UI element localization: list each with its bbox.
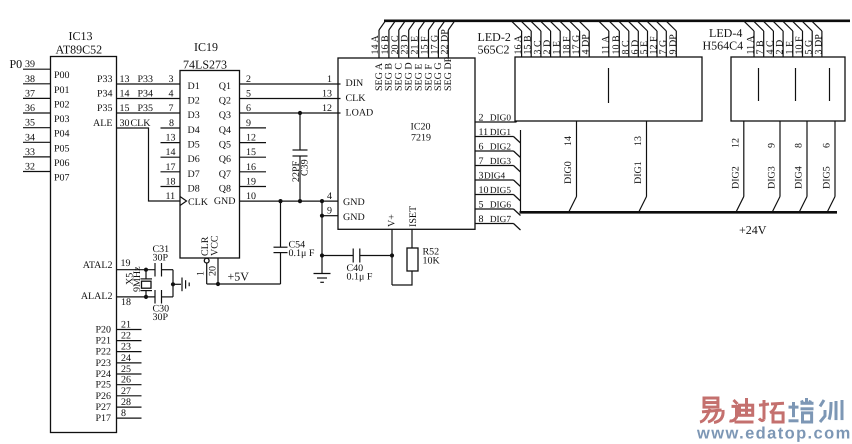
svg-text:P26: P26 <box>95 391 111 402</box>
pin label GND of IC19 <box>214 196 236 207</box>
pin label DIG5 rotated <box>822 166 833 189</box>
wire IC20 segment pin 16 B to bus <box>389 21 395 58</box>
svg-text:CLK: CLK <box>188 197 209 208</box>
svg-text:P20: P20 <box>95 325 111 336</box>
wire LED-4 DIG4 lead pin 8 <box>800 121 808 212</box>
node junction dot XTAL2 <box>144 295 148 299</box>
svg-text:P25: P25 <box>95 380 111 391</box>
svg-text:37: 37 <box>25 88 35 99</box>
pin number 12 rotated <box>730 138 741 148</box>
svg-text:P34: P34 <box>138 89 154 100</box>
svg-text:16: 16 <box>246 162 256 173</box>
wire net CLK from ALE pin30 down to IC19 CLK pin11 <box>117 118 181 201</box>
wire LED-2 pin 1 E from bus <box>550 21 560 57</box>
pin stub Q8 pin 19 <box>240 177 267 188</box>
wire V+ lead down <box>391 229 393 285</box>
pin label DIG4 rotated <box>794 166 805 189</box>
svg-text:12: 12 <box>322 103 332 114</box>
pin label P04 <box>54 129 70 140</box>
pin label P17 <box>95 413 111 424</box>
inverter bubble on CLR pin 1 <box>204 258 209 263</box>
pin label SEG F rotated <box>423 64 434 91</box>
wire C54 top to GND row <box>280 201 282 247</box>
wire LED-4 DIG3 lead pin 9 <box>773 121 781 212</box>
pin label CLK of IC19 <box>188 197 209 208</box>
wire LED-2 pin 3 C from bus <box>531 21 541 57</box>
node junction dot Q3/C39 <box>298 111 302 115</box>
label 7219 <box>411 133 431 144</box>
wire LED-2 pin 7 G from bus <box>656 21 666 57</box>
svg-text:P35: P35 <box>138 103 154 114</box>
pin stub IC19 D4 pin 8 <box>161 118 181 129</box>
wire LED-2 pin 6 D from bus <box>628 21 638 57</box>
svg-text:DIG1: DIG1 <box>490 128 512 138</box>
pin number label 7 B rotated <box>755 40 766 55</box>
wire IC13 pin 24 P23 <box>117 353 142 364</box>
pin label P35 inside IC13 <box>97 103 113 114</box>
label AT89C52 <box>56 43 103 57</box>
pin label P03 <box>54 114 70 125</box>
svg-text:35: 35 <box>25 118 35 129</box>
svg-text:25: 25 <box>121 364 131 375</box>
svg-text:P17: P17 <box>95 413 111 424</box>
svg-text:10K: 10K <box>423 256 441 267</box>
svg-text:3 DP: 3 DP <box>813 34 824 55</box>
resistor R52 10K <box>407 247 441 272</box>
svg-text:P33: P33 <box>97 74 113 85</box>
svg-text:P03: P03 <box>54 114 70 125</box>
wire LED-2 pin 9 DP from bus <box>666 21 676 57</box>
clock triangle on IC19 CLK pin <box>180 197 187 206</box>
svg-text:24: 24 <box>121 353 131 364</box>
pin label P21 <box>95 336 111 347</box>
wire DIG2 pin 6 to DIG bus <box>475 151 521 158</box>
svg-text:14: 14 <box>120 89 130 100</box>
label IC13 <box>69 29 93 43</box>
svg-text:GND: GND <box>343 212 365 223</box>
pin number 2 and label DIG0 <box>479 113 512 124</box>
wire LED-2 pin 10 B from bus <box>609 21 619 57</box>
svg-text:P07: P07 <box>54 173 70 184</box>
op-amp IC20 7219 display driver box <box>338 58 475 229</box>
svg-text:9: 9 <box>246 118 251 129</box>
wire IC20 segment pin 20 C to bus <box>399 21 405 58</box>
pin label Q8 <box>219 184 231 195</box>
svg-text:P23: P23 <box>95 358 111 369</box>
svg-text:19: 19 <box>246 177 256 188</box>
pin number label 1 E rotated <box>552 41 563 55</box>
svg-text:32: 32 <box>25 162 35 173</box>
svg-text:4 DP: 4 DP <box>581 34 592 55</box>
svg-text:Q1: Q1 <box>219 81 231 92</box>
pin stub Q6 pin 15 <box>240 147 267 158</box>
wire DIG1 pin 11 to DIG bus <box>475 137 521 144</box>
wire IC13 pin 33 P06 <box>23 147 51 158</box>
pin label P26 <box>95 391 111 402</box>
wire +5V riser to C54 <box>280 253 282 284</box>
wire IC13 pin 36 P03 <box>23 103 51 114</box>
wire ground riser vertical <box>172 270 174 297</box>
wire IC13 pin 25 P24 <box>117 364 142 375</box>
svg-text:D7: D7 <box>188 169 200 180</box>
svg-text:10: 10 <box>246 191 256 202</box>
pin number 11 and label DIG1 <box>479 127 512 138</box>
svg-text:20: 20 <box>208 266 219 276</box>
wire R52 bottom to V+ <box>392 271 412 285</box>
svg-text:+5V: +5V <box>228 270 250 284</box>
wire IC13 pin 28 P27 <box>117 397 142 408</box>
op-amp IC19 74LS273 latch box <box>180 71 240 259</box>
node junction dot C39 bottom <box>298 199 302 203</box>
svg-text:P02: P02 <box>54 99 70 110</box>
pin number 10 and label DIG5 <box>479 185 512 196</box>
pin label SEG G rotated <box>433 62 444 91</box>
wire IC13 pin 39 P00 <box>23 59 51 70</box>
pin number label 5 G rotated <box>804 40 815 55</box>
wire LED-2 pin 12 F from bus <box>647 21 657 57</box>
svg-text:AT89C52: AT89C52 <box>56 43 103 57</box>
pin label CLK of IC20 <box>346 93 367 104</box>
wire LED-4 pin 7 B from bus <box>754 21 764 57</box>
svg-text:DIG5: DIG5 <box>490 186 512 196</box>
svg-text:23: 23 <box>121 342 131 353</box>
svg-text:LOAD: LOAD <box>346 108 374 119</box>
wire LED-2 DIG1 lead pin 13 <box>639 121 647 212</box>
pin number 20 rotated <box>208 266 219 276</box>
svg-text:30P: 30P <box>153 253 169 264</box>
wire IC13 pin 27 P26 <box>117 386 142 397</box>
svg-text:11: 11 <box>479 127 489 138</box>
capacitor C54 0.1uF <box>274 240 315 260</box>
svg-text:D3: D3 <box>188 110 200 121</box>
capacitor C30 30P <box>153 290 170 323</box>
wire +5V rail <box>207 283 281 285</box>
wire LED-2 pin 2 D from bus <box>541 21 551 57</box>
svg-text:13: 13 <box>322 89 332 100</box>
svg-text:9: 9 <box>327 206 332 217</box>
pin label P25 <box>95 380 111 391</box>
svg-text:14: 14 <box>166 147 176 158</box>
pin label DIG1 rotated <box>633 161 644 184</box>
svg-text:28: 28 <box>121 397 131 408</box>
wire LED-4 pin 11 A from bus <box>744 21 754 57</box>
svg-text:Q8: Q8 <box>219 184 231 195</box>
label X5 <box>125 273 136 285</box>
pin label CLR rotated <box>200 236 211 256</box>
svg-text:34: 34 <box>25 132 35 143</box>
svg-text:P27: P27 <box>95 402 111 413</box>
label IC19 <box>194 40 218 54</box>
label 74LS273 <box>183 58 227 72</box>
svg-text:DIG2: DIG2 <box>490 143 512 153</box>
svg-text:P04: P04 <box>54 129 70 140</box>
wire to crystal ground <box>173 283 181 285</box>
wire DIG4 pin 3 to DIG bus <box>475 180 521 187</box>
value label 9MHz <box>132 266 143 292</box>
node junction dot XTAL1 <box>144 268 148 272</box>
svg-text:IC20: IC20 <box>411 122 431 133</box>
svg-text:27: 27 <box>121 386 131 397</box>
svg-text:30P: 30P <box>153 312 169 323</box>
wire LED-4 pin 3 DP from bus <box>812 21 822 57</box>
pin label SEG D rotated <box>404 62 415 91</box>
pin label D7 <box>188 169 200 180</box>
capacitor C31 30P <box>153 244 170 277</box>
ground symbol sideways near crystal <box>182 278 189 292</box>
pin label D4 <box>188 125 200 136</box>
pin number 11 for IC19 CLK <box>166 191 176 202</box>
svg-text:P21: P21 <box>95 336 111 347</box>
wire DIG5 pin 10 to DIG bus <box>475 195 521 202</box>
pin number label 2 D rotated <box>775 40 786 55</box>
wire LED-2 pin 17 G from bus <box>570 21 580 57</box>
svg-text:Q6: Q6 <box>219 154 231 165</box>
pin label Q1 <box>219 81 231 92</box>
svg-text:C39: C39 <box>300 159 311 176</box>
label IC20 <box>411 122 431 133</box>
wire IC13 pin 37 P02 <box>23 88 51 99</box>
wire IC13 pin 21 P20 <box>117 320 142 331</box>
pin label DIN <box>346 78 364 89</box>
svg-text:6: 6 <box>246 103 251 114</box>
pin number label 22 DP rotated <box>439 29 450 55</box>
svg-text:DIG0: DIG0 <box>563 161 574 184</box>
pin number label 4 DP rotated <box>581 34 592 55</box>
wire DIG0 pin2 to LED-2 <box>475 121 517 122</box>
pin number label 20 C rotated <box>390 35 401 55</box>
pin number label 17 G rotated <box>429 35 440 55</box>
pin number label 16 B rotated <box>380 35 391 55</box>
svg-text:10: 10 <box>479 185 489 196</box>
pin number 6 rotated <box>822 143 833 148</box>
wire LED-4 pin 4 C from bus <box>763 21 773 57</box>
svg-text:6: 6 <box>822 143 833 148</box>
svg-text:3: 3 <box>479 171 484 182</box>
digit dividers inside LED-4 <box>759 68 830 101</box>
svg-text:5: 5 <box>479 200 484 211</box>
pin stub IC19 D8 pin 18 <box>161 177 181 188</box>
pin label P02 <box>54 99 70 110</box>
pin label SEG C rotated <box>394 63 405 91</box>
pin number label 3 DP rotated <box>813 34 824 55</box>
pin stub Q5 pin 12 <box>240 133 267 144</box>
pin label ALAL2 inside IC13 <box>81 291 113 302</box>
svg-text:18: 18 <box>121 297 131 308</box>
pin number 7 and label DIG3 <box>479 156 512 167</box>
pin number 3 and label DIG4 <box>479 171 506 182</box>
label 565C2 <box>478 43 510 57</box>
wire IC20 segment pin 22 DP to bus <box>448 21 454 58</box>
svg-text:P00: P00 <box>54 70 70 81</box>
pin number label 12 F rotated <box>649 36 660 55</box>
pin number label 6 D rotated <box>630 40 641 55</box>
pin number 14 rotated <box>563 136 574 146</box>
svg-text:IC13: IC13 <box>69 29 93 43</box>
wire IC13 pin 26 P25 <box>117 375 142 386</box>
node +5V label <box>228 270 250 284</box>
pin number label 1 E rotated <box>784 41 795 55</box>
capacitor C39 22PF from LOAD to GND <box>293 113 308 201</box>
pin number 8 rotated <box>794 143 805 148</box>
svg-text:SEG DP: SEG DP <box>443 56 454 91</box>
wire XTAL2 pin 18 row <box>117 297 156 308</box>
svg-text:0.1μ F: 0.1μ F <box>347 272 373 283</box>
pin number label 15 B rotated <box>523 35 534 55</box>
pin label Q6 <box>219 154 231 165</box>
wire LED-2 pin 16 A from bus <box>512 21 522 57</box>
wire GND pin10 to IC20 GND pin4 <box>240 191 339 202</box>
pin label D1 <box>188 81 200 92</box>
pin label P27 <box>95 402 111 413</box>
pin label LOAD <box>346 108 374 119</box>
pin label D6 <box>188 154 200 165</box>
node junction dot on riser <box>171 282 175 286</box>
node +24V label <box>739 223 767 237</box>
digit divider inside LED-2 <box>608 68 610 103</box>
svg-text:DIG1: DIG1 <box>633 161 644 184</box>
svg-text:GND: GND <box>343 197 365 208</box>
svg-text:ISET: ISET <box>408 206 419 227</box>
wire DIG7 pin 8 to DIG bus <box>475 224 521 231</box>
pin number label 11 A rotated <box>746 35 757 55</box>
pin number label 5 E rotated <box>639 41 650 55</box>
svg-text:P05: P05 <box>54 143 70 154</box>
LED display LED-2 565C2 box <box>515 57 702 121</box>
svg-text:D6: D6 <box>188 154 200 165</box>
ground symbol below IC20 <box>314 274 331 283</box>
wire Q3 pin6 to IC20 LOAD pin12 <box>240 103 341 114</box>
svg-text:Q3: Q3 <box>219 110 231 121</box>
wire LED-2 pin 8 C from bus <box>619 21 629 57</box>
node junction dot VCC/+5V <box>216 282 220 286</box>
wire IC13 pin 23 P22 <box>117 342 142 353</box>
svg-text:P01: P01 <box>54 85 70 96</box>
pin label P20 <box>95 325 111 336</box>
pin label DIG3 rotated <box>767 166 778 189</box>
wire LED-4 pin 5 G from bus <box>802 21 812 57</box>
wire IC13 pin 35 P04 <box>23 118 51 129</box>
node junction dot GND pin9 tee <box>320 214 324 218</box>
wire XTAL1 pin 19 row <box>117 258 156 270</box>
pin number label 7 G rotated <box>658 40 669 55</box>
wire IC13 pin 32 P07 <box>23 162 51 173</box>
pin label GND pin4 <box>343 197 365 208</box>
svg-text:30: 30 <box>120 118 130 129</box>
svg-text:8: 8 <box>121 408 126 419</box>
wire bottom DIG bus <box>520 211 838 214</box>
pin number 8 and label DIG7 <box>479 214 512 225</box>
svg-text:13: 13 <box>633 136 644 146</box>
pin number 9 rotated <box>767 143 778 148</box>
pin label P06 <box>54 158 70 169</box>
wire LED-4 pin 1 E from bus <box>783 21 793 57</box>
pin label D5 <box>188 140 200 151</box>
svg-text:P24: P24 <box>95 369 111 380</box>
pin label Q3 <box>219 110 231 121</box>
svg-text:3: 3 <box>169 74 174 85</box>
label LED-2 <box>478 30 511 44</box>
pin label D8 <box>188 184 200 195</box>
svg-text:DIG3: DIG3 <box>767 166 778 189</box>
pin label P01 <box>54 85 70 96</box>
wire IC13 pin 22 P21 <box>117 331 142 342</box>
node P0 port label <box>10 57 23 71</box>
pin label P05 <box>54 143 70 154</box>
svg-text:13: 13 <box>166 133 176 144</box>
pin stub IC19 D6 pin 14 <box>161 147 181 158</box>
svg-text:P06: P06 <box>54 158 70 169</box>
svg-text:8: 8 <box>794 143 805 148</box>
pin number label 17 G rotated <box>571 35 582 55</box>
svg-text:Q7: Q7 <box>219 169 231 180</box>
svg-text:2: 2 <box>246 74 251 85</box>
pin number label 14 A rotated <box>370 35 381 55</box>
pin label P07 <box>54 173 70 184</box>
svg-text:5: 5 <box>246 89 251 100</box>
svg-text:D2: D2 <box>188 96 200 107</box>
wire net P35 pin15 to IC19 D3 pin7 <box>117 103 181 114</box>
wire C31 right to ground riser <box>162 269 174 271</box>
svg-text:D4: D4 <box>188 125 200 136</box>
pin label Q7 <box>219 169 231 180</box>
pin label ALE inside IC13 <box>93 118 112 129</box>
svg-text:D5: D5 <box>188 140 200 151</box>
wire vertical DIG bus segment <box>520 130 522 211</box>
wire ISET lead down <box>411 229 413 248</box>
svg-text:P22: P22 <box>95 347 111 358</box>
svg-text:7: 7 <box>169 103 174 114</box>
pin number label 10 F rotated <box>794 36 805 55</box>
pin label DIG2 rotated <box>730 166 741 189</box>
svg-text:Q2: Q2 <box>219 96 231 107</box>
svg-text:DIG4: DIG4 <box>794 166 805 189</box>
svg-text:6: 6 <box>479 142 484 153</box>
pin label P24 <box>95 369 111 380</box>
svg-text:Q5: Q5 <box>219 140 231 151</box>
svg-text:DIG4: DIG4 <box>484 172 506 182</box>
wire LED-4 DIG5 lead pin 6 <box>828 121 836 212</box>
wire Q1 pin2 to IC20 DIN pin1 <box>240 74 341 85</box>
pin stub IC19 D7 pin 17 <box>161 162 181 173</box>
pin number label 15 F rotated <box>420 36 431 55</box>
svg-text:P35: P35 <box>97 103 113 114</box>
pin number label 18 F rotated <box>561 36 572 55</box>
svg-text:ATAL2: ATAL2 <box>83 260 113 271</box>
svg-text:P33: P33 <box>138 74 154 85</box>
capacitor C40 0.1uF on V+ wire <box>322 249 392 283</box>
wire CLR pin1 down <box>206 263 208 284</box>
wire LED-2 DIG0 lead pin 14 <box>569 121 577 212</box>
pin label VCC rotated <box>210 235 221 256</box>
wire LED-2 pin 15 B from bus <box>521 21 531 57</box>
pin stub Q7 pin 16 <box>240 162 267 173</box>
wire LED-2 pin 18 F from bus <box>560 21 570 57</box>
wire VCC pin20 down <box>217 258 219 284</box>
svg-text:9: 9 <box>767 143 778 148</box>
svg-text:2: 2 <box>479 113 484 124</box>
pin label V+ rotated <box>387 214 398 227</box>
pin label Q4 <box>219 125 231 136</box>
wire IC13 pin 8 P17 <box>117 408 142 419</box>
pin number label 2 D rotated <box>542 40 553 55</box>
svg-text:D1: D1 <box>188 81 200 92</box>
svg-text:12: 12 <box>246 133 256 144</box>
svg-text:39: 39 <box>25 59 35 70</box>
svg-text:ALAL2: ALAL2 <box>81 291 113 302</box>
svg-text:DIG2: DIG2 <box>730 166 741 189</box>
wire IC20 segment pin 23 D to bus <box>409 21 415 58</box>
svg-text:DIN: DIN <box>346 78 364 89</box>
